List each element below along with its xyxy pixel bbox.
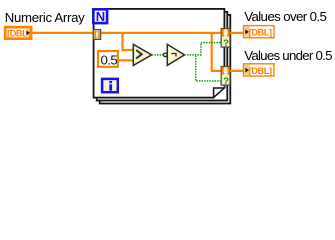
numeric constant 0.5 — [98, 51, 118, 67]
wire: 0.5 to Greater bottom input — [118, 59, 134, 61]
for loop border sheet 3 — [100, 15, 231, 104]
conditional tunnel top (over 0.5) — [221, 29, 230, 49]
svg-text:0.5: 0.5 — [101, 52, 118, 67]
wire: Numeric Array terminal to loop tunnel — [31, 32, 95, 34]
main array wire inside loop — [101, 32, 221, 34]
svg-text:Numeric Array: Numeric Array — [5, 10, 85, 25]
svg-text:Values under 0.5: Values under 0.5 — [244, 48, 332, 63]
svg-text:[DBL]: [DBL] — [249, 28, 272, 38]
for loop corner fold flap — [214, 88, 225, 98]
conditional tunnel bottom (under 0.5) — [221, 67, 230, 87]
wire branch down to bottom tunnel — [212, 33, 221, 71]
boolean wire: branch up to top conditional tunnel — [201, 43, 221, 56]
boolean wire: branch down to bottom conditional tunnel — [196, 56, 221, 81]
for loop corner fold erase — [213, 87, 226, 99]
svg-text:?: ? — [223, 76, 229, 87]
Greater? function U1 — [133, 44, 151, 65]
indicator terminal Values under 0.5 [DBL] — [244, 64, 275, 76]
svg-text:N: N — [96, 9, 105, 24]
boolean wire: Greater output to Not input — [152, 54, 164, 56]
svg-text:[DBL]: [DBL] — [249, 66, 272, 76]
wire branch down to Greater top input — [123, 33, 134, 50]
wire: top tunnel to Values over indicator — [230, 32, 244, 34]
iteration terminal i — [102, 79, 118, 92]
boolean wire: Not output trunk — [184, 54, 201, 56]
for loop border sheet 2 — [97, 12, 228, 101]
svg-text:Values over 0.5: Values over 0.5 — [244, 9, 326, 24]
input auto-index tunnel — [93, 30, 100, 40]
loop count terminal N — [93, 9, 107, 24]
Not function U2 — [164, 44, 185, 65]
wire: bottom tunnel to Values under indicator — [230, 70, 244, 72]
indicator terminal Values over 0.5 [DBL] — [244, 26, 275, 38]
control terminal Numeric Array [DBL] — [5, 27, 31, 39]
for loop border front sheet — [94, 9, 225, 98]
svg-text:?: ? — [223, 38, 229, 49]
